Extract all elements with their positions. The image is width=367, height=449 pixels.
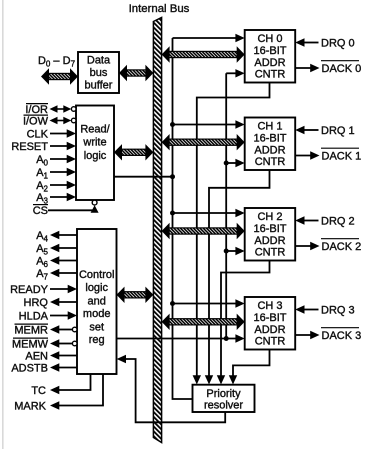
svg-text:Data: Data [87,54,111,66]
pin A7 [36,268,77,282]
svg-text:TC: TC [31,385,46,397]
svg-text:DRQ 1: DRQ 1 [321,125,355,137]
pin DRQ1 [295,125,354,137]
wire CH2 output to priority resolver [217,261,270,385]
svg-text:CH 3: CH 3 [257,300,282,312]
wire CH0 top input [173,34,245,42]
svg-text:write: write [82,136,106,148]
wire trunk E vertical [225,73,227,338]
svg-text:CS: CS [33,205,48,217]
channel 2 box CH2 [245,208,296,261]
wire CH1 top input [173,120,245,128]
bus arrow control-internal bus [117,287,154,303]
pin HLDA [19,311,77,323]
svg-text:CH 0: CH 0 [257,33,282,45]
svg-text:DACK 3: DACK 3 [322,330,362,342]
svg-text:CH 2: CH 2 [257,211,282,223]
pin RESET [11,141,76,153]
svg-text:MEMW: MEMW [12,339,49,351]
svg-text:READY: READY [10,284,49,296]
junction node trunkA-CH2 [170,211,175,216]
pin A1 [36,167,76,181]
pin DACK0 [295,61,361,75]
wire CH2 bottom input [226,247,245,255]
svg-text:HRQ: HRQ [24,297,49,309]
svg-text:reg: reg [89,334,105,346]
pin A3 [36,192,76,206]
pin DACK1 [295,148,361,162]
pin READY [10,284,77,296]
svg-text:16-BIT: 16-BIT [253,312,286,324]
svg-text:logic: logic [84,150,107,162]
svg-text:and: and [88,295,106,307]
pin MEMR with bubble [14,324,77,336]
read/write logic block [76,106,114,201]
bus arrow D0-D7 external [41,68,78,84]
pin CLK [27,129,76,141]
pin I/OR with bubble [25,104,76,116]
pin DRQ0 [295,38,354,50]
svg-text:MARK: MARK [14,401,46,413]
wire CH0 output to priority resolver [193,83,270,385]
svg-text:CNTR: CNTR [255,156,286,168]
bus arrow CH2-internal bus [162,223,245,239]
svg-text:I/OR: I/OR [25,104,48,116]
pin HRQ [24,297,77,309]
svg-text:set: set [89,321,104,333]
pin DACK2 [295,239,361,253]
svg-text:DRQ 3: DRQ 3 [321,305,355,317]
pin CS with bubble into box bottom [33,200,99,217]
wire read/write logic to trunk A [114,176,173,178]
svg-text:A0: A0 [36,154,48,168]
pin ADSTB [11,363,77,375]
svg-text:RESET: RESET [11,141,48,153]
wire control logic to CH3 bottom input [117,334,245,342]
svg-text:16-BIT: 16-BIT [253,223,286,235]
wire CH0 bottom input [226,69,245,77]
wire CH3 top input [173,299,245,307]
bus arrow CH0-internal bus [162,46,245,62]
svg-text:CNTR: CNTR [255,335,286,347]
wire CH2 top input [173,209,245,217]
pin DRQ3 [295,305,354,317]
pin I/OW with bubble [23,115,76,127]
pin AEN [25,351,77,363]
priority resolver block [193,385,255,412]
bus arrow read/write-internal bus [114,144,153,160]
svg-text:DACK 2: DACK 2 [322,241,362,253]
junction node trunkA-CH3 [170,301,175,306]
svg-text:A4: A4 [36,230,48,244]
svg-text:ADDR: ADDR [254,324,285,336]
pin MARK [14,374,103,413]
svg-text:A7: A7 [36,268,48,282]
svg-text:ADSTB: ADSTB [11,363,48,375]
pin A0 [36,154,76,168]
pin A4 [36,230,77,244]
channel 3 box CH3 [245,297,296,350]
svg-text:CH 1: CH 1 [257,121,282,133]
junction node trunkE-CH2 [224,249,229,254]
svg-text:ADDR: ADDR [254,235,285,247]
svg-text:HLDA: HLDA [19,311,49,323]
pin DACK3 [295,328,361,342]
wire priority resolver feedback to control logic [117,355,226,423]
bus arrow CH1-internal bus [162,134,245,150]
internal bus bar [153,18,161,443]
pin DRQ2 [295,216,354,228]
pin TC [31,374,90,397]
svg-text:I/OW: I/OW [23,116,49,128]
junction node trunkA-readwrite [170,174,175,179]
svg-text:resolver: resolver [204,400,243,412]
pin A2 [36,180,76,194]
svg-text:CNTR: CNTR [255,68,286,80]
svg-text:A6: A6 [36,256,48,270]
svg-text:D0 – D7: D0 – D7 [38,55,76,69]
wire trunk A vertical with resolver feed [173,38,193,399]
svg-text:DACK 0: DACK 0 [322,63,362,75]
bus arrow CH3-internal bus [162,314,245,330]
svg-text:16-BIT: 16-BIT [253,45,286,57]
svg-text:AEN: AEN [25,351,48,363]
svg-text:ADDR: ADDR [254,144,285,156]
pin A6 [36,256,77,270]
svg-text:CLK: CLK [27,129,49,141]
junction node trunkA-CH1 [170,122,175,127]
pin A5 [36,243,77,257]
svg-text:Read/: Read/ [80,124,110,136]
svg-text:Priority: Priority [206,388,241,400]
svg-text:buffer: buffer [85,79,113,91]
svg-text:A5: A5 [36,243,48,257]
data bus buffer U1 [78,52,119,93]
wire CH3 output to priority resolver [229,350,270,385]
svg-text:ADDR: ADDR [254,57,285,69]
pin MEMW with bubble [12,338,77,350]
svg-text:16-BIT: 16-BIT [253,133,286,145]
svg-text:mode: mode [83,308,111,320]
svg-text:A3: A3 [36,192,48,206]
channel 0 box CH0 [245,30,296,83]
svg-text:MEMR: MEMR [14,325,48,337]
control logic and mode set reg block [77,229,117,374]
junction node trunkE-control [224,336,229,341]
svg-text:Control: Control [79,269,114,281]
svg-text:DACK 1: DACK 1 [322,151,362,163]
svg-text:bus: bus [90,67,108,79]
svg-text:A1: A1 [36,167,48,181]
scan shadow left edge [2,0,4,449]
wire CH1 output to priority resolver [205,170,270,384]
svg-text:logic: logic [85,282,108,294]
svg-text:CNTR: CNTR [255,246,286,258]
wire CH1 bottom input [226,159,245,167]
bus arrow buffer-internal bus [119,65,153,81]
junction node trunkE-CH1 [224,161,229,166]
svg-text:DRQ 2: DRQ 2 [321,216,355,228]
channel 1 box CH1 [245,118,296,171]
svg-text:DRQ 0: DRQ 0 [321,38,355,50]
svg-text:Internal Bus: Internal Bus [129,3,190,15]
